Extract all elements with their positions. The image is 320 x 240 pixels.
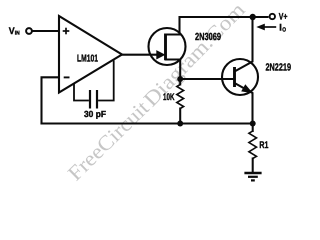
wire JFET source down to node A — [166, 60, 181, 85]
junction dot emitter / rail / R1 — [250, 121, 256, 127]
BJT emitter arrowhead — [241, 84, 253, 93]
junction dot collector / top rail — [250, 14, 256, 20]
wire Vin input to op-amp + — [33, 30, 60, 32]
svg-text:IN: IN — [15, 31, 20, 37]
wire BJT emitter to rail — [235, 83, 253, 124]
wire 10K bottom to rail — [179, 109, 181, 124]
terminal V+ — [270, 14, 275, 19]
wire feedback from - input: left and down — [42, 77, 60, 123]
transistor Q2 2N2219 BJT — [222, 59, 258, 95]
terminal Vin — [26, 28, 32, 34]
node A junction dot (JFET source / base) — [177, 76, 183, 82]
svg-text:30 pF: 30 pF — [84, 109, 107, 119]
svg-text:2N2219: 2N2219 — [266, 62, 292, 73]
junction dot 10K bottom on rail — [177, 121, 183, 127]
svg-text:V+: V+ — [279, 12, 288, 22]
op-amp - input sign — [64, 76, 70, 78]
resistor R1 — [249, 131, 257, 159]
wire BJT collector to top rail — [235, 17, 253, 72]
wire node A to BJT base — [180, 78, 234, 80]
svg-text:10K: 10K — [163, 92, 175, 103]
capacitor C1 30pF leads — [74, 60, 114, 108]
transistor Q1 2N3069 JFET — [149, 28, 186, 65]
svg-text:LM101: LM101 — [77, 54, 98, 65]
wire R1 to ground — [252, 159, 254, 173]
op-amp U1 LM101 triangle — [59, 16, 122, 93]
resistor 10K — [177, 85, 184, 109]
capacitor plates — [89, 90, 91, 109]
op-amp + input sign — [63, 28, 70, 35]
svg-text:R1: R1 — [259, 140, 268, 151]
wire emitter node to R1 — [252, 124, 254, 132]
wire op-amp output to JFET gate — [122, 54, 158, 56]
wire bottom rail — [42, 122, 253, 124]
wire JFET drain up and top rail to V+ — [166, 17, 268, 35]
svg-text:O: O — [282, 27, 286, 34]
svg-text:2N3069: 2N3069 — [195, 32, 221, 43]
arrow Io pointing left — [263, 26, 276, 28]
ground — [244, 173, 261, 180]
JFET gate arrowhead — [156, 50, 165, 59]
